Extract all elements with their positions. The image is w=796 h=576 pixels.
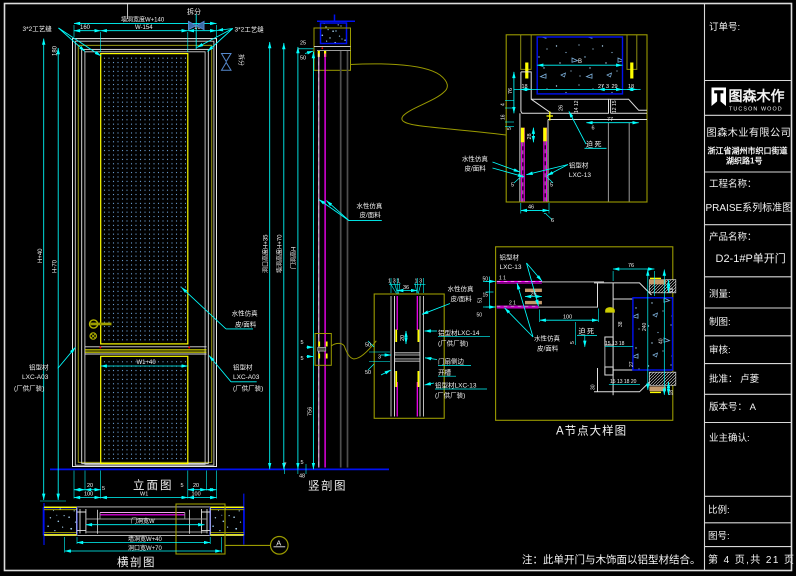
svg-text:3*2工艺缝: 3*2工艺缝 <box>235 24 265 33</box>
leather label leaders <box>349 220 382 222</box>
svg-text:1 3: 1 3 <box>415 279 423 285</box>
svg-text:5: 5 <box>507 127 513 130</box>
leader LXC-A03 right <box>231 381 257 383</box>
sealant lines yellow right block <box>210 506 244 508</box>
svg-text:迫死: 迫死 <box>586 140 603 149</box>
svg-text:H-70: H-70 <box>53 259 59 273</box>
detail callout box A <box>176 504 225 554</box>
svg-text:洞口高度H+35: 洞口高度H+35 <box>262 234 270 273</box>
svg-text:洞口宽W+70: 洞口宽W+70 <box>128 544 163 552</box>
svg-text:竖剖图: 竖剖图 <box>308 479 347 493</box>
svg-text:迫死: 迫死 <box>579 327 596 336</box>
die-stop underline + leader <box>577 335 597 337</box>
leader leather label <box>226 328 253 330</box>
wall block left <box>44 508 77 535</box>
dim opening height <box>269 42 271 469</box>
svg-text:756: 756 <box>307 407 313 416</box>
svg-text:5: 5 <box>102 486 105 492</box>
svg-text:D2-1#P单开门: D2-1#P单开门 <box>716 251 786 265</box>
svg-text:1 1: 1 1 <box>499 276 506 282</box>
top small dims <box>389 284 400 286</box>
svg-text:制图:: 制图: <box>709 316 731 328</box>
svg-text:20: 20 <box>400 335 406 341</box>
lock callout box <box>315 334 331 366</box>
svg-text:18: 18 <box>669 287 675 293</box>
top centerline tick <box>127 4 129 20</box>
svg-text:皮/面料: 皮/面料 <box>451 294 473 303</box>
jamb profile right <box>202 508 211 535</box>
svg-text:LXC-13: LXC-13 <box>500 264 522 271</box>
svg-text:240: 240 <box>642 322 648 331</box>
svg-text:18: 18 <box>628 84 634 90</box>
leaf body gray lines <box>86 518 207 520</box>
svg-text:50: 50 <box>365 370 371 376</box>
svg-text:A节点大样图: A节点大样图 <box>556 424 627 438</box>
20 vertical dim <box>405 331 407 344</box>
5 leader vertical <box>575 322 577 345</box>
svg-text:15 13 18: 15 13 18 <box>605 341 625 347</box>
svg-text:审核:: 审核: <box>709 344 731 356</box>
leader leather <box>493 162 520 172</box>
dim 46 <box>520 203 522 214</box>
leader groove <box>425 358 437 360</box>
svg-text:铝型材: 铝型材 <box>500 253 520 262</box>
svg-text:25: 25 <box>300 40 306 46</box>
leader LXC-13 <box>547 165 568 176</box>
head detail callout box <box>314 28 351 70</box>
dim 76 vertical <box>513 72 515 113</box>
wall face extension lines blue <box>43 503 45 545</box>
head frame lines <box>314 46 351 48</box>
door frame white rect <box>82 49 209 463</box>
dim 26 small <box>525 296 542 298</box>
svg-text:16: 16 <box>501 114 507 120</box>
sealant lines yellow left block <box>44 506 77 508</box>
mid rail red end dots <box>99 347 101 349</box>
lock parts <box>318 342 320 347</box>
leader LXC-13 <box>425 383 435 385</box>
svg-text:产品名称：: 产品名称： <box>709 231 757 243</box>
mid rail lines <box>85 346 207 348</box>
svg-text:水性仿真: 水性仿真 <box>448 284 475 293</box>
bottom dim row 20/5 left <box>74 489 85 491</box>
svg-text:注：此单开门与木饰面以铝型材结合。: 注：此单开门与木饰面以铝型材结合。 <box>522 553 701 566</box>
svg-text:27: 27 <box>598 84 604 90</box>
small stacked dims left <box>505 100 514 102</box>
fan leaders to stacked 1/3 dims <box>390 283 397 294</box>
leaf finish magenta pair right <box>543 128 545 202</box>
svg-text:6: 6 <box>592 126 595 132</box>
door handle lever <box>90 320 98 328</box>
bottom extension lines <box>73 471 75 499</box>
svg-text:水性仿真: 水性仿真 <box>462 154 489 163</box>
svg-text:1 3 1: 1 3 1 <box>388 279 400 285</box>
latch yellow <box>605 307 615 312</box>
svg-text:27: 27 <box>629 361 635 367</box>
split symbol centerline <box>195 14 197 49</box>
svg-text:6: 6 <box>551 218 554 224</box>
svg-text:100: 100 <box>563 315 572 321</box>
svg-text:湖织路1号: 湖织路1号 <box>726 156 762 166</box>
svg-text:门扇侧边: 门扇侧边 <box>438 357 465 366</box>
cap yellow dashes <box>650 277 661 279</box>
dim wall opening width <box>77 542 210 544</box>
dim wall height <box>283 43 285 469</box>
dim door opening width <box>86 524 205 526</box>
svg-text:50: 50 <box>365 343 371 349</box>
svg-text:77: 77 <box>607 117 613 123</box>
svg-text:水性仿真: 水性仿真 <box>232 309 259 318</box>
bottom tick of left dims <box>40 500 66 502</box>
dim leaf height <box>312 52 314 469</box>
svg-text:浙江省湖州市织口街道: 浙江省湖州市织口街道 <box>708 146 788 156</box>
leaf finish magenta lines <box>396 296 398 330</box>
svg-text:20: 20 <box>193 483 199 489</box>
svg-text:比例:: 比例: <box>708 504 730 516</box>
svg-text:46: 46 <box>528 204 534 210</box>
pair center white dashes <box>522 142 524 201</box>
svg-text:40: 40 <box>659 338 665 344</box>
bottom dim row 5/20 right <box>188 489 207 491</box>
svg-text:50: 50 <box>477 313 483 319</box>
dim 76 top <box>613 268 654 270</box>
svg-text:36: 36 <box>403 285 409 291</box>
svg-text:开槽: 开槽 <box>438 368 452 377</box>
lower panel yellow moulding <box>101 356 188 463</box>
svg-text:100: 100 <box>192 491 201 497</box>
label underlines <box>438 336 490 338</box>
company logo icon <box>712 88 727 107</box>
leader to bubble <box>225 544 270 546</box>
svg-text:图森木作: 图森木作 <box>729 88 785 104</box>
leaf end verticals <box>99 513 101 520</box>
leader leather <box>422 304 450 315</box>
svg-text:铝型材: 铝型材 <box>233 363 253 372</box>
left small marks <box>483 280 496 282</box>
door trim olive rect <box>78 45 211 462</box>
svg-text:铝型材LXC-13: 铝型材LXC-13 <box>435 381 477 390</box>
dim wall opening width <box>74 22 217 24</box>
svg-text:PRAISE系列标准图: PRAISE系列标准图 <box>706 201 793 214</box>
svg-text:A: A <box>276 539 281 548</box>
svg-text:5: 5 <box>511 183 514 189</box>
svg-text:版本号： A: 版本号： A <box>709 401 757 413</box>
dim W1+40 mid rail <box>101 365 188 367</box>
edge groove bars <box>395 353 420 356</box>
upper panel yellow moulding <box>101 54 188 344</box>
svg-text:5: 5 <box>301 460 304 466</box>
svg-text:100: 100 <box>84 491 93 497</box>
svg-text:水性仿真: 水性仿真 <box>534 334 561 343</box>
svg-text:76: 76 <box>508 88 514 94</box>
leaf face magenta pair <box>100 512 185 514</box>
svg-text:30: 30 <box>591 384 597 390</box>
sealant bar right <box>630 63 633 79</box>
svg-text:皮/面料: 皮/面料 <box>235 320 257 329</box>
wall edge olive left <box>521 35 532 70</box>
svg-text:W-154: W-154 <box>135 25 153 31</box>
head frame profile <box>520 72 647 202</box>
svg-text:皮/面料: 皮/面料 <box>360 210 382 219</box>
small dim rows <box>605 345 633 347</box>
svg-text:皮/面料: 皮/面料 <box>537 344 559 353</box>
svg-text:门洞高H: 门洞高H <box>290 247 298 269</box>
svg-text:76: 76 <box>628 263 634 269</box>
leaf face finish line (dashed pink) <box>318 54 320 468</box>
extension lines <box>73 25 75 37</box>
leaf finish magenta pair left <box>521 128 523 202</box>
svg-text:门洞宽W: 门洞宽W <box>131 517 155 525</box>
wall edge olive right <box>627 35 637 70</box>
bottom outline white <box>44 534 245 536</box>
left tall dim H+40 <box>43 39 45 500</box>
wall block right <box>633 298 673 370</box>
leaf skin 5 dims <box>514 177 521 184</box>
jamb profile white <box>594 283 652 395</box>
svg-text:业主确认:: 业主确认: <box>709 432 750 444</box>
detail boundary box <box>496 247 673 420</box>
bottom dim row 100/W1/100 <box>74 497 101 499</box>
wall block right <box>210 508 244 535</box>
svg-text:墙洞高度H+70: 墙洞高度H+70 <box>276 234 284 273</box>
detail boundary box <box>506 35 647 202</box>
head lintel blue line <box>317 20 355 22</box>
svg-text:2 1: 2 1 <box>509 301 516 307</box>
head small dim connectors <box>299 48 314 50</box>
top outline white <box>44 506 245 508</box>
dim trim outer width <box>65 550 222 552</box>
split symbol small (right of door) <box>222 54 232 62</box>
door trim second rect <box>75 41 214 465</box>
dim door height <box>297 47 299 469</box>
svg-text:图森木业有限公司: 图森木业有限公司 <box>707 126 792 139</box>
leaf face magenta pair top <box>497 280 542 282</box>
svg-text:订单号:: 订单号: <box>709 21 740 33</box>
svg-text:5: 5 <box>301 356 304 362</box>
svg-text:5: 5 <box>570 341 576 344</box>
svg-text:3: 3 <box>378 355 381 361</box>
svg-text:图号:: 图号: <box>708 531 730 542</box>
split bow-tie symbol <box>189 22 232 71</box>
svg-text:(厂供厂装): (厂供厂装) <box>233 384 263 393</box>
floor line <box>50 468 389 470</box>
svg-text:38: 38 <box>618 321 624 327</box>
door key cylinder <box>90 333 96 339</box>
svg-text:拆分: 拆分 <box>237 54 245 66</box>
svg-text:26: 26 <box>531 292 537 298</box>
left small dims <box>368 341 374 347</box>
head sealant bars <box>318 51 320 57</box>
svg-text:160: 160 <box>80 25 91 31</box>
leader LXC-14 <box>425 330 438 332</box>
floor level ticks <box>283 464 285 474</box>
leader LXC-A03 left <box>58 347 76 368</box>
leaf back gray lines <box>340 51 342 468</box>
anchor mark yellow <box>549 112 551 121</box>
leader die-stop <box>569 111 586 144</box>
svg-text:180: 180 <box>53 45 59 56</box>
row dividers <box>705 80 792 82</box>
svg-text:(厂供厂装): (厂供厂装) <box>14 384 44 393</box>
detail bubble A <box>271 537 289 555</box>
svg-text:18: 18 <box>669 390 675 396</box>
dim B wall width <box>537 64 622 66</box>
door wall-opening outer rect <box>73 39 217 467</box>
svg-text:5: 5 <box>181 483 184 489</box>
svg-text:12 15: 12 15 <box>612 100 618 113</box>
svg-text:第 4 页,共 21 页: 第 4 页,共 21 页 <box>708 553 795 566</box>
svg-text:(厂供厂装): (厂供厂装) <box>438 339 468 348</box>
svg-text:W1+40: W1+40 <box>137 360 157 366</box>
lower panel dotted leather fill <box>103 358 186 461</box>
svg-text:皮/面料: 皮/面料 <box>465 164 487 173</box>
leaf face magenta pair bottom <box>497 305 539 307</box>
wall cap hatched top <box>649 280 675 293</box>
svg-text:铝型材: 铝型材 <box>29 363 49 372</box>
upper panel dotted leather fill <box>103 56 186 342</box>
left tall dim H-70 <box>57 48 59 500</box>
svg-text:横剖图: 横剖图 <box>117 555 156 569</box>
svg-text:4: 4 <box>501 103 507 106</box>
jamb profile left <box>77 508 86 535</box>
svg-text:48: 48 <box>299 474 305 480</box>
svg-text:拆分: 拆分 <box>187 7 201 16</box>
profile bars tan <box>525 289 542 292</box>
A-detail left offset dims <box>489 277 491 309</box>
svg-text:墙洞宽W+40: 墙洞宽W+40 <box>128 535 163 543</box>
leaf edge white lines <box>390 296 392 417</box>
svg-text:26: 26 <box>559 105 565 111</box>
head wall block <box>321 23 347 44</box>
profile bar yellow right <box>543 128 547 142</box>
lock small dims <box>307 346 314 348</box>
cap profile tan bars <box>649 280 666 285</box>
svg-text:18: 18 <box>522 84 528 90</box>
extension ticks <box>64 537 66 553</box>
dim 77 <box>586 122 638 124</box>
detail boundary box <box>374 294 444 418</box>
dim 28 vertical <box>532 128 534 143</box>
dim 100 <box>540 319 599 321</box>
profile bar yellow left <box>521 128 525 143</box>
leaders leather <box>505 308 534 337</box>
sealant bar left <box>525 63 528 79</box>
wall cap hatched bottom <box>649 372 675 385</box>
svg-text:29: 29 <box>612 84 618 90</box>
svg-text:TUCSON WOOD: TUCSON WOOD <box>729 107 783 113</box>
svg-text:(厂供厂装): (厂供厂装) <box>435 391 465 400</box>
svg-text:水性仿真: 水性仿真 <box>356 201 383 210</box>
svg-text:14 12: 14 12 <box>574 100 580 113</box>
svg-text:28: 28 <box>527 133 533 139</box>
svg-text:墙洞宽度W+140: 墙洞宽度W+140 <box>121 15 165 23</box>
svg-text:3*2工艺缝: 3*2工艺缝 <box>23 24 53 33</box>
svg-text:50: 50 <box>300 55 306 61</box>
dim 6 leader <box>544 213 547 215</box>
leaders LXC-13 <box>527 263 542 281</box>
svg-text:W1: W1 <box>140 491 148 497</box>
svg-text:工程名称：: 工程名称： <box>709 178 757 190</box>
leaf face magenta line <box>324 54 326 468</box>
svg-text:铝型材: 铝型材 <box>569 161 589 170</box>
svg-text:H+40: H+40 <box>38 248 44 263</box>
vertical dims right <box>647 270 649 391</box>
svg-text:LXC-A03: LXC-A03 <box>22 374 49 381</box>
craft-gap leader left <box>59 28 86 52</box>
svg-text:铝型材LXC-14: 铝型材LXC-14 <box>438 328 480 337</box>
svg-text:7: 7 <box>284 462 287 468</box>
profile clips yellow <box>395 330 397 343</box>
svg-text:测量:: 测量: <box>709 289 731 300</box>
dim row 18/27/3/29/18 <box>514 88 641 90</box>
svg-text:20: 20 <box>87 483 93 489</box>
leaf body gray lines <box>542 281 604 283</box>
svg-text:LXC-A03: LXC-A03 <box>233 374 260 381</box>
svg-text:立面图: 立面图 <box>133 478 174 492</box>
craft-gap leader right <box>217 29 233 31</box>
title block left border <box>704 4 706 571</box>
svg-text:5: 5 <box>550 183 553 189</box>
svg-text:批准： 卢菱: 批准： 卢菱 <box>709 373 760 385</box>
svg-text:B: B <box>578 59 582 65</box>
wavy leader lock to edge detail <box>331 341 376 359</box>
door leaf white rect <box>85 52 205 464</box>
svg-text:3: 3 <box>606 84 609 90</box>
dim W-154 row <box>74 30 101 32</box>
svg-text:5: 5 <box>301 340 304 346</box>
wall block <box>537 37 622 94</box>
svg-text:15 13 18 20: 15 13 18 20 <box>610 379 637 385</box>
svg-text:LXC-13: LXC-13 <box>569 172 591 179</box>
wavy leader head to head detail <box>351 64 507 135</box>
svg-text:51: 51 <box>478 297 484 303</box>
